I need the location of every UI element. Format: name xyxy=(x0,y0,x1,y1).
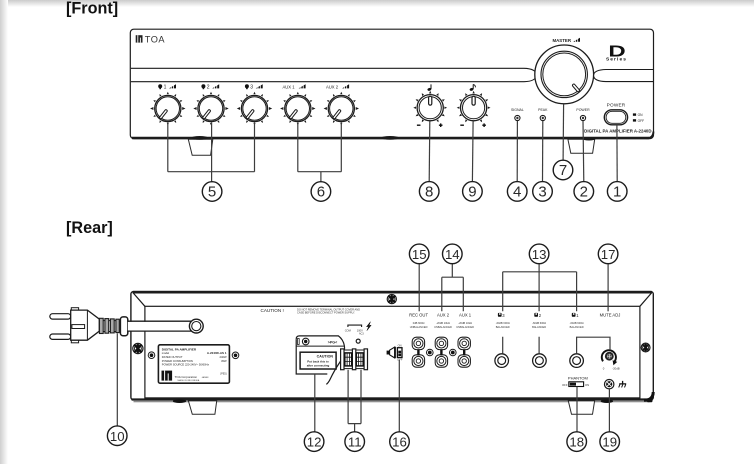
aux knob AUX 2 xyxy=(324,92,359,125)
callout 5 xyxy=(202,182,222,202)
svg-text:OFF: OFF xyxy=(562,383,568,387)
AUX 2 label xyxy=(434,313,452,329)
callout 12 xyxy=(304,432,324,452)
PHANTOM switch xyxy=(562,376,589,387)
wire SIGNAL led to callout 4 xyxy=(516,121,518,182)
svg-text:0dB 600Ω: 0dB 600Ω xyxy=(413,321,425,325)
lightning symbol xyxy=(367,322,372,331)
screw on right side face xyxy=(641,343,650,352)
svg-text:[Front]: [Front] xyxy=(66,0,118,17)
mic phone jacks xyxy=(495,354,509,368)
MUTE ADJ trimmer xyxy=(602,350,620,370)
mic input 3 label xyxy=(496,313,510,329)
ground symbol xyxy=(619,381,627,388)
master knob U7 xyxy=(535,45,594,104)
aux knob label AUX 2 xyxy=(326,84,349,89)
treble knob minus plus marks xyxy=(460,123,486,127)
input knob 1 xyxy=(150,92,185,125)
SIGNAL indicator xyxy=(511,108,524,120)
svg-text:17: 17 xyxy=(601,247,616,262)
ground terminal screw xyxy=(605,380,614,389)
callout 7 xyxy=(553,160,573,180)
callout 1 xyxy=(607,182,627,202)
svg-text:POWER SOURCE 220-240V~ 50/: POWER SOURCE 220-240V~ 50/60Hz xyxy=(162,363,210,367)
input knob 3 xyxy=(237,92,272,125)
aux knob AUX 1 xyxy=(280,92,315,125)
washer left of label plate xyxy=(148,352,155,359)
rear foot right xyxy=(568,401,594,414)
svg-text:1: 1 xyxy=(164,85,167,91)
front foot left xyxy=(188,136,213,155)
monitor switch xyxy=(397,343,403,361)
wire master knob to callout 7 xyxy=(562,104,565,160)
svg-text:4: 4 xyxy=(513,184,521,201)
wire callout 17 to MUTE ADJ xyxy=(607,264,609,312)
POWER switch xyxy=(604,102,644,124)
treble knob xyxy=(457,91,491,123)
svg-text:JAPAN: JAPAN xyxy=(202,376,209,379)
washers between RCA jacks xyxy=(427,349,457,356)
cord strain relief xyxy=(99,317,127,336)
svg-text:CAUTION: CAUTION xyxy=(317,355,334,359)
wire bass knob to callout 8 xyxy=(428,121,431,181)
callout 4 xyxy=(507,182,527,202)
wire phantom switch to callout 18 xyxy=(576,387,578,432)
svg-text:CAUTION !: CAUTION ! xyxy=(261,308,284,313)
svg-text:MASTER: MASTER xyxy=(552,38,571,43)
rec out / aux RCA jacks xyxy=(412,337,424,349)
svg-text:COM: COM xyxy=(345,328,351,332)
front panel outline xyxy=(130,29,653,138)
svg-text:12: 12 xyxy=(307,435,322,450)
svg-text:POWER: POWER xyxy=(576,108,590,112)
svg-text:ON: ON xyxy=(585,383,589,387)
rear foot left xyxy=(188,401,216,414)
svg-text:AUX 2: AUX 2 xyxy=(437,313,450,318)
rear chassis front face xyxy=(145,306,640,398)
svg-text:19: 19 xyxy=(602,435,617,450)
faceplate groove band left xyxy=(131,68,537,81)
callout 15 xyxy=(409,244,429,264)
svg-text:OFF: OFF xyxy=(397,358,403,362)
input knob 2 xyxy=(193,92,228,125)
callout 9 xyxy=(463,182,483,202)
svg-text:DIGITAL PA AMPLIFIER A-2240D: DIGITAL PA AMPLIFIER A-2240D xyxy=(584,129,651,134)
MASTER label xyxy=(552,38,580,43)
svg-text:-20dB 10kΩ: -20dB 10kΩ xyxy=(436,321,450,325)
svg-text:model: model xyxy=(162,351,170,355)
front foot rear-left (pad) xyxy=(381,136,399,140)
svg-text:UNBALANCED: UNBALANCED xyxy=(456,325,474,329)
terminal cover screw xyxy=(302,338,309,345)
bass knob label (note icon) xyxy=(427,84,432,91)
svg-text:POWER CONSUMPTION: POWER CONSUMPTION xyxy=(162,359,193,363)
svg-text:240W: 240W xyxy=(219,355,226,359)
caution text xyxy=(261,307,361,314)
svg-text:-20dB 10kΩ: -20dB 10kΩ xyxy=(458,321,472,325)
svg-text:3: 3 xyxy=(538,184,546,201)
svg-text:[PE5]: [PE5] xyxy=(220,372,226,375)
callout 6 xyxy=(311,182,331,202)
svg-text:Series: Series xyxy=(606,56,627,62)
callout 3 xyxy=(533,182,553,202)
svg-text:10: 10 xyxy=(110,429,125,444)
svg-text:-60dB 600Ω: -60dB 600Ω xyxy=(496,321,510,325)
screw on top face xyxy=(387,295,396,304)
svg-text:15: 15 xyxy=(412,247,427,262)
svg-text:AUX 1: AUX 1 xyxy=(459,313,472,318)
cord entry hole xyxy=(189,319,203,333)
mic input 2 label xyxy=(532,313,546,329)
wire knobs 1-3 to callout 5 xyxy=(168,122,255,181)
svg-text:AC3: AC3 xyxy=(359,333,364,336)
svg-text:9: 9 xyxy=(468,184,476,201)
wire callout 15 to REC OUT xyxy=(418,264,420,312)
svg-text:-20dB: -20dB xyxy=(612,366,620,370)
svg-text:MUTE ADJ: MUTE ADJ xyxy=(600,313,621,318)
callout 18 xyxy=(567,432,587,452)
svg-text:CASE BEFORE DISCONNECT POWER S: CASE BEFORE DISCONNECT POWER SUPPLY. xyxy=(297,311,355,315)
voltage marking COM 100V xyxy=(345,325,365,336)
callout 10 xyxy=(107,426,127,446)
wire POWER switch to callout 1 xyxy=(616,125,618,182)
wire monitor switch to callout 16 xyxy=(398,360,400,432)
svg-text:SIGNAL: SIGNAL xyxy=(511,108,524,112)
svg-text:after connecting: after connecting xyxy=(307,364,330,368)
wire PEAK led to callout 3 xyxy=(542,121,544,182)
svg-text:DIGITAL PA AMPLIFIER: DIGITAL PA AMPLIFIER xyxy=(162,348,197,352)
power cord plug xyxy=(50,308,100,343)
rating label plate xyxy=(158,345,229,383)
screw left of label plate xyxy=(133,343,143,353)
svg-text:A-2240D-AS 1: A-2240D-AS 1 xyxy=(207,351,227,355)
wire aux knobs to callout 6 xyxy=(298,122,342,181)
bass knob minus plus marks xyxy=(417,123,443,127)
svg-text:6: 6 xyxy=(317,184,325,201)
svg-text:RATED OUTPUT: RATED OUTPUT xyxy=(162,355,183,359)
svg-text:PEAK: PEAK xyxy=(538,108,548,112)
svg-text:16: 16 xyxy=(392,435,407,450)
svg-text:>PG<: >PG< xyxy=(328,340,337,344)
terminal cover PG flap xyxy=(296,336,344,385)
svg-text:PHANTOM: PHANTOM xyxy=(568,376,588,381)
AUX 1 label xyxy=(456,313,474,329)
callout 13 xyxy=(529,244,549,264)
input knob 3 label xyxy=(245,84,263,90)
TOA logo xyxy=(136,34,166,44)
svg-text:8: 8 xyxy=(425,184,433,201)
caution label on cover xyxy=(300,352,336,369)
wire callout 13 to mic jacks xyxy=(503,264,577,312)
svg-text:BALANCED: BALANCED xyxy=(496,325,510,329)
svg-text:7: 7 xyxy=(559,162,567,179)
svg-text:REC OUT: REC OUT xyxy=(409,313,428,318)
svg-text:45W: 45W xyxy=(221,359,227,363)
svg-text:BALANCED: BALANCED xyxy=(532,325,546,329)
svg-text:-60dB 600Ω: -60dB 600Ω xyxy=(532,321,546,325)
D Series logo xyxy=(606,43,627,62)
svg-text:POWER: POWER xyxy=(607,102,626,107)
wire POWER led to callout 2 xyxy=(582,121,585,182)
treble knob label (note icon) xyxy=(469,84,475,91)
svg-text:UNBALANCED: UNBALANCED xyxy=(410,325,428,329)
svg-text:AUX 2: AUX 2 xyxy=(326,85,339,90)
washer right of label plate xyxy=(232,352,239,359)
callout 11 xyxy=(345,432,365,452)
rear chassis corner edges xyxy=(133,293,652,307)
svg-text:11: 11 xyxy=(348,435,362,450)
input knob 2 label xyxy=(201,84,219,90)
callout 2 xyxy=(574,182,594,202)
rear chassis back outline xyxy=(131,292,653,400)
svg-text:2: 2 xyxy=(207,85,210,91)
callout 19 xyxy=(600,432,620,452)
wire cord to callout 10 xyxy=(116,333,118,426)
svg-text:5: 5 xyxy=(208,184,216,201)
bass knob xyxy=(413,91,447,123)
aux knob label AUX 1 xyxy=(282,84,305,89)
monitor speaker icon xyxy=(387,347,396,358)
svg-text:13: 13 xyxy=(532,247,547,262)
wire terminal cover to callout 12 xyxy=(314,375,316,432)
front foot right xyxy=(568,137,596,153)
svg-text:TOA: TOA xyxy=(145,34,166,44)
faceplate groove band right xyxy=(593,70,653,82)
svg-text:14: 14 xyxy=(445,247,460,262)
svg-text:UNBALANCED: UNBALANCED xyxy=(434,325,452,329)
svg-text:1: 1 xyxy=(613,184,621,201)
svg-text:TOA Corporation: TOA Corporation xyxy=(175,375,198,379)
svg-text:AUX 1: AUX 1 xyxy=(282,85,295,90)
wire callout 14 to AUX jacks xyxy=(442,264,464,312)
POWER indicator xyxy=(576,108,590,120)
wire terminal block to callout 11 xyxy=(348,370,361,432)
svg-text:ON: ON xyxy=(398,343,402,347)
svg-text:OFF: OFF xyxy=(638,119,645,123)
AC terminal block xyxy=(341,349,368,370)
mic input 1 label xyxy=(570,313,584,329)
callout 8 xyxy=(419,182,439,202)
fuse indicator circle xyxy=(356,339,360,343)
input knob 1 label xyxy=(158,84,176,90)
RCA link bars xyxy=(417,350,419,355)
wire mic jack 1 and mute adj xyxy=(577,337,610,353)
REC OUT label xyxy=(409,313,428,329)
callout 14 xyxy=(443,244,463,264)
PEAK indicator xyxy=(538,108,548,120)
svg-text:[Rear]: [Rear] xyxy=(66,219,113,237)
svg-text:2: 2 xyxy=(580,184,588,201)
power cord into chassis xyxy=(128,322,192,331)
svg-text:3: 3 xyxy=(250,85,253,91)
wire treble knob to callout 9 xyxy=(471,121,474,181)
rear bottom feet pads xyxy=(173,399,186,403)
svg-text:18: 18 xyxy=(569,435,584,450)
wire ground screw to callout 19 xyxy=(608,389,610,432)
callout 16 xyxy=(390,432,410,452)
callout 17 xyxy=(598,244,618,264)
svg-text:-60dB 600Ω: -60dB 600Ω xyxy=(570,321,584,325)
svg-text:ON: ON xyxy=(638,113,644,117)
svg-text:BALANCED: BALANCED xyxy=(570,325,584,329)
rear chassis bottom plate edge (grey) xyxy=(134,401,650,403)
svg-text:MADE IN INDONESIA: MADE IN INDONESIA xyxy=(178,379,200,382)
